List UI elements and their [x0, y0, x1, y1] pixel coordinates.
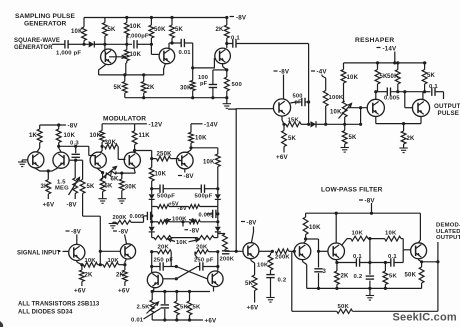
svg-text:ULATED: ULATED — [436, 229, 460, 235]
wire: pulse tap to Q4 base — [228, 108, 274, 110]
wire Q9c emitter -8V — [184, 169, 186, 173]
svg-text:0.005: 0.005 — [384, 96, 400, 102]
transistor Q9c — [177, 152, 194, 169]
label: SIGNAL INPUT — [17, 251, 61, 257]
label 1.5 MEG — [55, 180, 69, 192]
label 2K — [147, 85, 156, 91]
node rail 5K right — [423, 61, 426, 64]
wire signal input — [58, 250, 69, 252]
pot arrow 6K — [101, 167, 117, 180]
label 0.2 (Q14) — [278, 278, 287, 284]
potentiometer 2.5K — [150, 300, 154, 320]
resistor 5K (Q6 load) — [422, 63, 427, 100]
label 10K — [71, 29, 83, 35]
node trigger-50K — [150, 43, 153, 46]
capacitor 250pF (left) — [152, 262, 177, 270]
svg-text:-4V: -4V — [317, 69, 328, 76]
resistor 200K (vert) — [218, 234, 228, 252]
ground (0.2) — [266, 298, 274, 303]
wire: long vertical to gate — [308, 44, 310, 125]
wire feedback up — [291, 251, 293, 311]
label 10K (f1) — [352, 231, 364, 237]
svg-text:0.005: 0.005 — [130, 214, 145, 220]
wire Q9b coll node — [135, 151, 152, 159]
wire -8V to Q4 — [283, 75, 285, 99]
wire: Q1 to 10K pot wiper — [109, 55, 125, 59]
label 250 pF right — [194, 257, 214, 263]
label 1K — [29, 133, 38, 139]
resistor 10K #1 — [83, 262, 103, 267]
wire Q5 emitter — [375, 117, 377, 124]
resistor 5K (emitter) — [122, 75, 127, 98]
resistor 30K (Q3 bias) — [190, 68, 195, 98]
svg-text:-8V: -8V — [247, 220, 257, 226]
svg-text:5K: 5K — [245, 281, 254, 287]
transistor Q2 — [159, 48, 175, 64]
label 0.1 (output) — [429, 84, 438, 90]
resistor 500 (Q3 emitter) — [224, 77, 229, 104]
node rail-50K — [150, 16, 153, 19]
diode D4 (right col) — [215, 189, 221, 207]
svg-text:30K: 30K — [180, 86, 192, 92]
capacitor 0.005 (left) — [144, 212, 152, 223]
node 250 R — [216, 265, 219, 268]
node Q9 emitter — [101, 171, 104, 174]
resistor 200K (h) — [275, 249, 294, 254]
wire: top -8V rail — [84, 17, 227, 19]
wire left col into Q12 — [151, 252, 153, 273]
resistor 10K (reshaper in) — [341, 63, 346, 101]
node lpf rail — [370, 212, 373, 215]
label DEMODULATED OUTPUT — [436, 223, 460, 242]
label -8V (mod rail) — [62, 123, 78, 130]
node vert-base — [235, 250, 238, 253]
svg-text:20K: 20K — [196, 245, 208, 251]
svg-text:3K: 3K — [41, 184, 50, 190]
svg-text:50K: 50K — [154, 27, 166, 33]
svg-text:2K: 2K — [216, 27, 225, 33]
resistor 5K (ff right) — [187, 292, 192, 321]
svg-text:30K: 30K — [105, 140, 117, 146]
capacitor 0.01 (ff) — [161, 292, 169, 321]
wire Q16 rail drop — [335, 213, 337, 243]
transistor Q1 — [101, 49, 117, 65]
node rail 5K — [376, 61, 379, 64]
label 0.005 — [384, 96, 400, 102]
label 10K — [130, 24, 142, 30]
transistor Q7 — [28, 152, 44, 168]
cross-coupling X2 — [163, 267, 197, 279]
capacitor 250pF (right) — [197, 262, 217, 270]
ground (Q9b emitter) — [118, 199, 126, 204]
transistor Q4 — [273, 99, 290, 116]
wire Q4 emitter — [282, 116, 284, 124]
label 5K (Q9 emitter) — [105, 184, 114, 190]
wire: square-wave input — [52, 43, 65, 45]
label +6V (Q11) — [118, 288, 130, 295]
node rail-10K — [125, 16, 128, 19]
wire -8V Q11 — [125, 235, 127, 244]
label 10K (Q14 out) — [257, 263, 269, 269]
resistor 200K — [113, 220, 144, 224]
node 500pF row R — [216, 187, 219, 190]
capacitor 500pF (left) — [160, 185, 163, 193]
note: ALL DIODES SD34 — [18, 310, 73, 316]
svg-text:1,000 pF: 1,000 pF — [56, 51, 81, 57]
resistor 2K (Q11) — [123, 265, 128, 286]
wire: Q8 collector node to 0.3 — [59, 145, 89, 147]
node Q17 em — [420, 260, 423, 263]
node Q6 base tap — [403, 90, 406, 93]
wire emitter bus Q9b — [116, 168, 135, 174]
wire Q3 emitter — [223, 64, 227, 77]
svg-text:5K: 5K — [288, 136, 297, 142]
resistor 11K — [132, 124, 137, 151]
label 5K (Q14) — [245, 281, 254, 287]
label 50K — [387, 74, 399, 80]
svg-text:-8V: -8V — [178, 206, 187, 212]
wire left drop — [151, 292, 153, 301]
svg-text:5K: 5K — [175, 27, 184, 33]
node b2 — [175, 318, 178, 321]
label 500pF left — [157, 194, 175, 200]
wire -4V down — [322, 75, 326, 91]
svg-text:500pF: 500pF — [195, 194, 213, 200]
capacitor 1,000pF (coupling) — [134, 40, 152, 48]
svg-text:RESHAPER: RESHAPER — [355, 37, 394, 44]
node wiper-wire — [359, 123, 362, 126]
wire: reshaper rail — [344, 62, 427, 64]
resistor 50K (Q17) — [419, 267, 424, 288]
node lb1 — [317, 287, 320, 290]
node 100pF bottom — [211, 96, 214, 99]
node lb2 — [335, 287, 338, 290]
wire -8V lpf — [371, 203, 373, 213]
wire lpf in node — [304, 239, 319, 251]
resistor 10K (Q8 load) — [56, 125, 61, 152]
transistor Q13 — [208, 271, 224, 287]
wire Q8 base row — [69, 159, 83, 161]
node 0.3 tap — [74, 145, 77, 148]
title: RESHAPER — [355, 37, 394, 44]
resistor 5K (ff left) — [174, 292, 179, 321]
label 2K (Q10) — [85, 273, 94, 279]
svg-text:1K: 1K — [29, 133, 38, 139]
svg-text:5K: 5K — [427, 73, 436, 79]
resistor 10K (Q9 load) — [100, 124, 105, 153]
label 500 pF (gate) — [293, 94, 303, 106]
wire -8V Q10 — [76, 235, 78, 245]
capacitor 0.005 (right) — [207, 210, 218, 218]
resistor 2K (emitter) — [141, 75, 146, 98]
resistor 5K (Q4 emitter) — [282, 124, 287, 152]
label 200K (h) — [275, 255, 290, 261]
label 15K — [288, 118, 300, 124]
transistor Q12 — [147, 272, 163, 288]
label 500pF right — [195, 194, 213, 200]
wire bias to signal stage — [83, 216, 101, 265]
label 5K — [380, 74, 389, 80]
svg-text:2K: 2K — [341, 274, 350, 280]
node lcol 0.005 — [150, 214, 153, 217]
label 0.1 — [231, 36, 240, 42]
node Q9c coll — [189, 146, 192, 149]
transistor Q5 — [367, 99, 384, 116]
node Q14 node — [271, 250, 274, 253]
svg-text:20K: 20K — [158, 245, 170, 251]
label -14V (mod) — [199, 121, 219, 128]
label 100K — [329, 95, 344, 101]
svg-text:MEG: MEG — [55, 186, 69, 192]
title: SAMPLING PULSE GENERATOR — [15, 13, 76, 28]
label 5K (bias) — [87, 184, 96, 190]
svg-text:6K: 6K — [111, 177, 120, 183]
svg-text:10K: 10K — [176, 240, 188, 246]
capacitor 0.01 — [181, 39, 193, 47]
wire: trigger line to cap — [94, 43, 132, 45]
label 2K (Q16) — [341, 274, 350, 280]
resistor 15K — [284, 122, 308, 127]
node rail -14V — [393, 61, 396, 64]
node 250 Lr — [175, 265, 178, 268]
label +6V (3K) — [43, 202, 55, 209]
node 500pF row L — [150, 187, 153, 190]
label 10K #2 — [108, 258, 120, 264]
svg-text:30K: 30K — [125, 185, 137, 191]
svg-text:200K: 200K — [220, 257, 235, 263]
svg-text:-8V: -8V — [236, 15, 247, 22]
node 5Kl — [175, 290, 178, 293]
svg-text:MODULATOR: MODULATOR — [103, 116, 146, 123]
label 6K — [111, 177, 120, 183]
node 5Kr — [188, 290, 191, 293]
node 100K mid — [181, 220, 184, 223]
transistor Q9b — [124, 152, 140, 168]
label 0.1 (f2) — [388, 254, 397, 260]
svg-text:0.2: 0.2 — [278, 278, 287, 284]
wire lpf rail — [306, 212, 421, 214]
wire Q14 emitter — [251, 259, 255, 275]
label 30K — [180, 86, 192, 92]
label 10K (lpf in) — [309, 225, 321, 231]
label 10K (right col) — [203, 160, 215, 166]
row: bias resistors — [152, 205, 218, 209]
label -8V (100K) — [185, 228, 200, 234]
resistor 1K — [37, 125, 42, 152]
resistor 5K (Q14) — [252, 275, 257, 303]
row: 10K pair — [152, 236, 218, 240]
label 200K — [113, 215, 127, 221]
svg-text:GENERATOR: GENERATOR — [24, 20, 67, 27]
resistor 10K (lpf in) — [303, 213, 308, 239]
resistor 2K (Q10) — [80, 265, 85, 286]
svg-text:0.2: 0.2 — [354, 274, 363, 280]
svg-text:10K: 10K — [85, 258, 97, 264]
node diode-vert — [307, 123, 310, 126]
label 200K (vert) — [220, 257, 235, 263]
node 250K left — [150, 157, 153, 160]
wire -14V col — [191, 124, 199, 133]
svg-text:5K: 5K — [349, 135, 358, 141]
resistor 2K (reshaper emitters) — [401, 124, 406, 148]
label -8V (row) — [178, 206, 187, 212]
label -8V (Q9c) — [178, 173, 194, 180]
label 1,000 pF (input) — [56, 51, 81, 57]
label 500 — [232, 82, 243, 88]
resistor 5K (Q2 load) — [169, 18, 174, 49]
wire: -12V rail — [102, 123, 135, 125]
node 500 top — [225, 68, 228, 71]
node 2K q10 — [80, 263, 83, 266]
resistor 10K (-14V) — [189, 132, 194, 148]
node X2 — [175, 277, 178, 280]
wire Q7/Q8 emitters — [34, 168, 58, 172]
label -8V (Q11) — [113, 230, 128, 236]
label 30K (horiz) — [105, 140, 117, 146]
label 10K (f2) — [385, 231, 397, 237]
node 20K L — [150, 250, 153, 253]
svg-text:SQUARE-WAVE: SQUARE-WAVE — [14, 38, 60, 44]
label 10K (-14V) — [195, 136, 207, 142]
row: 20K right — [195, 250, 218, 258]
svg-text:-8V: -8V — [365, 198, 376, 205]
svg-text:+6V: +6V — [43, 202, 55, 209]
capacitor 500pF (gate) — [290, 98, 308, 106]
node e-bus 2K — [142, 73, 145, 76]
wire Q10 emitter — [77, 261, 82, 265]
svg-text:0.01: 0.01 — [131, 318, 144, 324]
node rcol 0.005 — [216, 212, 219, 215]
node lcol 100K — [150, 220, 153, 223]
wire: Q2 collector to 0.01 — [172, 42, 181, 44]
svg-text:DEMOD-: DEMOD- — [436, 223, 460, 229]
svg-text:250K: 250K — [157, 152, 173, 158]
label 10K — [64, 133, 76, 139]
label 0.2 (lpf) — [354, 274, 363, 280]
wire Q7 base to ground — [22, 160, 28, 162]
svg-text:500: 500 — [232, 82, 243, 88]
label -14V (reshaper) — [377, 46, 398, 53]
node 30K base tap — [191, 66, 194, 69]
wire Q1 emitter — [99, 64, 107, 75]
svg-text:+6V: +6V — [247, 305, 259, 312]
potentiometer 10K (Q1) — [124, 44, 129, 75]
capacitor 500pF (right) — [201, 185, 204, 193]
node rail 50K — [396, 61, 399, 64]
node 30K left — [101, 145, 104, 148]
label 1,000pF — [126, 34, 149, 40]
node 15K-5K — [282, 123, 285, 126]
label +5V — [169, 201, 180, 207]
svg-text:+6V: +6V — [205, 318, 217, 325]
label -12V — [135, 122, 163, 129]
label -8V (lpf) — [359, 198, 375, 205]
node mod rail — [57, 123, 60, 126]
capacitor 0.1 (f2) — [391, 258, 394, 266]
wire -8V Q14 — [252, 227, 254, 243]
transistor Q17 — [411, 243, 427, 259]
svg-text:0.3: 0.3 — [70, 141, 79, 147]
wire Q17 rail — [419, 213, 421, 242]
svg-text:0.1: 0.1 — [388, 254, 397, 260]
transistor Q16 — [328, 243, 345, 260]
node: trigger-10K junction — [82, 43, 85, 46]
wire Q9 emitter — [97, 168, 103, 173]
transistor Q8 — [53, 152, 69, 168]
label 5K (lpf) — [389, 274, 397, 280]
capacitor 0.1 (output) — [425, 88, 444, 100]
label 2.5K — [137, 305, 151, 311]
resistor 10K (gate left col) — [149, 159, 154, 189]
ground (Q7 base) — [18, 162, 26, 167]
svg-text:-8V: -8V — [68, 123, 79, 130]
node 0.3 bottom — [74, 159, 77, 162]
svg-text:3: 3 — [323, 269, 327, 275]
title: MODULATOR — [103, 116, 146, 123]
wire to Q9 base — [89, 146, 95, 155]
ground (sampling) — [223, 104, 231, 109]
label -8V (top rail) — [230, 15, 247, 22]
label 50K (Q17) — [405, 273, 417, 279]
wire: 0.01 to Q3 base — [193, 43, 215, 68]
label 3K — [41, 184, 50, 190]
node pot-column-wire — [343, 123, 346, 126]
label 2K (Q11) — [116, 273, 125, 279]
label 0.005 right — [199, 212, 214, 218]
watermark SeekIC.com — [393, 312, 457, 324]
wire feedback bottom — [292, 310, 438, 312]
resistor 10K (input pullup) — [82, 18, 87, 45]
svg-text:10K: 10K — [309, 225, 321, 231]
wire demod junction — [422, 261, 438, 263]
wire gate to reshaper — [326, 123, 361, 125]
node 30K bottom — [191, 96, 194, 99]
label 2K — [407, 136, 416, 142]
label +6V (Q14) — [247, 305, 259, 312]
node Q11 base — [99, 250, 102, 253]
svg-text:100K: 100K — [172, 216, 187, 222]
svg-text:10K: 10K — [130, 24, 142, 30]
label 10K (pair) — [168, 239, 199, 246]
node bott rail 2K — [142, 96, 145, 99]
node e-bus 5K — [123, 73, 126, 76]
wire ff to Q14 base — [225, 250, 243, 252]
svg-text:10K: 10K — [352, 231, 364, 237]
row: 10K-10K filter — [347, 236, 403, 241]
wire: emitter bus y75 — [99, 74, 164, 76]
resistor 2K (Q16) — [335, 271, 340, 288]
svg-text:-8V: -8V — [119, 230, 129, 236]
svg-text:ALL TRANSISTORS 2SB113: ALL TRANSISTORS 2SB113 — [18, 302, 100, 308]
node 30K top — [120, 172, 123, 175]
label 0.3 — [70, 141, 79, 147]
capacitor 3 — [314, 251, 322, 288]
node out cap — [423, 90, 426, 93]
label 0.1 (f1) — [353, 254, 362, 260]
diode D5 (left col 2) — [149, 207, 155, 238]
row: 20K left — [152, 250, 172, 267]
pot arrow 2.5K — [147, 302, 159, 314]
svg-text:0.1: 0.1 — [429, 84, 438, 90]
svg-text:-14V: -14V — [204, 121, 219, 128]
node wiper — [359, 106, 362, 109]
wire Q17 emitter — [419, 259, 422, 267]
svg-text:-8V: -8V — [71, 230, 81, 236]
cap plates (200K) — [222, 251, 230, 254]
svg-text:+6V: +6V — [74, 288, 86, 295]
ground (reshaper) — [399, 148, 407, 153]
svg-text:LOW-PASS FILTER: LOW-PASS FILTER — [321, 187, 383, 194]
